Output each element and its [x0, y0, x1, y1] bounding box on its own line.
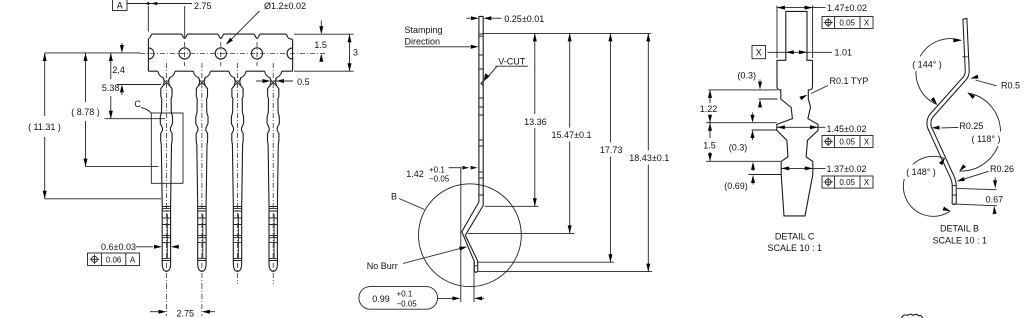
- partial squiggle at bottom edge: [902, 314, 923, 318]
- svg-text:+0.1: +0.1: [397, 290, 413, 299]
- svg-text:1.01: 1.01: [835, 48, 853, 58]
- svg-text:−0.05: −0.05: [397, 300, 418, 309]
- svg-text:SCALE 10 : 1: SCALE 10 : 1: [768, 243, 823, 253]
- svg-text:(0.3): (0.3): [729, 143, 748, 153]
- pin 2: [193, 63, 210, 284]
- top extension line for height dims: [483, 32, 651, 34]
- svg-text:0.25±0.01: 0.25±0.01: [504, 14, 544, 24]
- svg-text:1.5: 1.5: [703, 140, 716, 150]
- svg-text:0.05: 0.05: [839, 138, 855, 147]
- svg-text:Ø1.2±0.02: Ø1.2±0.02: [264, 1, 306, 11]
- svg-text:0.5: 0.5: [297, 77, 310, 87]
- band end caps: [952, 18, 968, 204]
- svg-text:No Burr: No Burr: [367, 261, 398, 271]
- hole 1 (half, left edge): [148, 48, 154, 59]
- feature control frame 0.05 X (bottom): [822, 176, 873, 188]
- svg-text:( 144° ): ( 144° ): [912, 59, 942, 69]
- LEFT VIEW: [28, 0, 358, 318]
- dimension 0.67: [957, 188, 997, 189]
- dimension 1.22: [709, 90, 711, 123]
- datum A box: [113, 0, 128, 11]
- svg-text:1.37±0.02: 1.37±0.02: [827, 164, 867, 174]
- balloon 0.99 +0.1/-0.05: [359, 287, 438, 310]
- dimension 2.75 top dim line: [157, 3, 192, 5]
- detail C rectangle: [151, 113, 183, 183]
- svg-text:1.47±0.02: 1.47±0.02: [827, 3, 867, 13]
- pin 2 centerline extension: [201, 284, 203, 316]
- svg-text:R0.1 TYP: R0.1 TYP: [830, 76, 869, 86]
- svg-text:0.06: 0.06: [106, 256, 122, 265]
- svg-text:−0.05: −0.05: [429, 174, 450, 183]
- dimension 18.43±0.1: [647, 33, 649, 271]
- svg-text:5.38: 5.38: [102, 83, 120, 93]
- holes vertical centerlines: [185, 42, 257, 66]
- holes horizontal centerline: [140, 52, 326, 54]
- extension line (kink) for 1.42/0.99: [460, 167, 462, 302]
- hole 5 (half, right edge): [287, 48, 293, 59]
- dimension 1.5 (right): [320, 21, 322, 33]
- dimension 1.37±0.02: [781, 167, 825, 169]
- reference line at hole centerline (left): [45, 52, 140, 54]
- svg-text:0.6±0.03: 0.6±0.03: [101, 242, 136, 252]
- pin 4: [265, 63, 282, 284]
- svg-text:1.5: 1.5: [314, 40, 327, 50]
- svg-text:0.05: 0.05: [839, 19, 855, 28]
- svg-text:A: A: [117, 1, 123, 11]
- DETAIL B: [902, 18, 1021, 318]
- pin 3: [229, 63, 246, 284]
- feature control frame 0.06 A: [88, 253, 140, 266]
- detail circle B: [419, 184, 522, 287]
- svg-text:2.75: 2.75: [194, 1, 212, 11]
- svg-text:X: X: [864, 138, 870, 147]
- svg-text:X: X: [864, 19, 870, 28]
- svg-text:( 8.78 ): ( 8.78 ): [71, 107, 100, 117]
- DETAIL C: [700, 3, 873, 253]
- svg-text:V-CUT: V-CUT: [498, 56, 526, 66]
- dimension 5.38: [110, 53, 112, 119]
- dimension 0.99 leader and arrows: [438, 297, 453, 299]
- svg-text:2,4: 2,4: [112, 65, 125, 75]
- svg-text:R0.5: R0.5: [1001, 80, 1020, 90]
- svg-text:B: B: [391, 191, 397, 201]
- dimension 13.36: [534, 33, 536, 206]
- svg-text:( 118° ): ( 118° ): [972, 134, 1001, 144]
- angle arc (148°): [903, 156, 950, 216]
- svg-text:17.73: 17.73: [600, 145, 623, 155]
- pin 1: [158, 63, 175, 284]
- svg-text:+0.1: +0.1: [429, 165, 445, 174]
- band segment ticks: [952, 57, 968, 195]
- dimension 1.5 (detail C): [709, 123, 711, 162]
- svg-text:C: C: [134, 99, 141, 109]
- svg-text:0.99: 0.99: [372, 294, 390, 304]
- dimension 1.45±0.02: [777, 126, 826, 128]
- feature control frame 0.05 X (top): [822, 17, 873, 29]
- svg-text:DETAIL C: DETAIL C: [775, 232, 815, 242]
- hole 4: [251, 48, 262, 59]
- svg-text:13.36: 13.36: [524, 117, 547, 127]
- pin 1 centerline extension: [165, 284, 167, 316]
- carrier strip bottom edge: [148, 70, 292, 72]
- svg-text:(0.69): (0.69): [724, 181, 748, 191]
- svg-text:1.45±0.02: 1.45±0.02: [827, 124, 867, 134]
- svg-text:0.05: 0.05: [839, 178, 855, 187]
- strip side profile (edge-on): [462, 16, 483, 272]
- datum X box: [752, 46, 766, 59]
- svg-text:X: X: [756, 47, 762, 57]
- svg-text:(0.3): (0.3): [737, 71, 756, 81]
- dimension 2.75 top extension lines: [148, 6, 184, 38]
- svg-text:R0.25: R0.25: [959, 121, 983, 131]
- dimension 3 (right): [294, 34, 354, 71]
- dimension 1.01: [768, 51, 833, 53]
- feature control frame 0.05 X (mid): [822, 136, 873, 148]
- dimension 2.4: [121, 43, 123, 45]
- svg-text:Stamping: Stamping: [405, 25, 443, 35]
- svg-text:1.22: 1.22: [700, 104, 718, 114]
- extension line (foot) for 0.99: [473, 262, 475, 302]
- dimension 0.25±0.01: [466, 17, 470, 19]
- dimension 1.47±0.02: [777, 6, 813, 59]
- dimension (8.78): [85, 53, 87, 167]
- svg-text:SCALE 10 : 1: SCALE 10 : 1: [933, 236, 988, 246]
- extension line at 122.7: [706, 122, 777, 124]
- SIDE VIEW: [359, 14, 669, 309]
- svg-text:18.43±0.1: 18.43±0.1: [629, 153, 669, 163]
- svg-text:1.42: 1.42: [406, 169, 424, 179]
- extension line at 161.3: [706, 160, 781, 162]
- dimension 2.75 bottom: [150, 311, 158, 313]
- svg-text:( 11.31 ): ( 11.31 ): [28, 122, 61, 132]
- dimension 15.47±0.1: [569, 33, 571, 233]
- feature tick lines on side strip: [475, 34, 484, 266]
- svg-text:15.47±0.1: 15.47±0.1: [552, 130, 592, 140]
- dimension (11.31): [44, 53, 46, 199]
- hole 2: [179, 48, 190, 59]
- detail C profile outline: [777, 11, 818, 216]
- carrier strip outline: [148, 34, 292, 71]
- svg-text:DETAIL B: DETAIL B: [940, 223, 979, 233]
- datum A leader line: [127, 3, 157, 5]
- dimension 17.73: [609, 33, 611, 262]
- dimension 0.5 (pin neck width): [256, 80, 263, 82]
- svg-text:X: X: [864, 178, 870, 187]
- hole 3: [215, 48, 226, 59]
- svg-text:R0.26: R0.26: [990, 164, 1014, 174]
- detail B bent tip band: [929, 19, 967, 203]
- angle arc (118°): [960, 93, 1001, 171]
- svg-text:0.67: 0.67: [986, 195, 1004, 205]
- svg-text:2.75: 2.75: [177, 308, 195, 318]
- svg-text:3: 3: [353, 47, 358, 57]
- v-cut notch: [481, 81, 483, 85]
- extension line at 89.9: [709, 89, 778, 91]
- angle arc (144°): [916, 39, 961, 105]
- svg-text:Direction: Direction: [405, 36, 441, 46]
- svg-text:( 148° ): ( 148° ): [906, 167, 936, 177]
- stamping direction arrow: [405, 46, 470, 48]
- svg-text:A: A: [130, 256, 136, 265]
